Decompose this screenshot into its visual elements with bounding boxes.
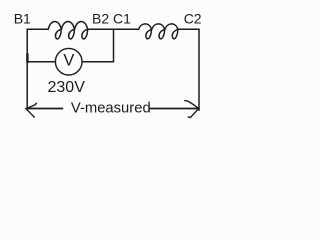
left arrowhead (sketched) [26,103,37,117]
svg-text:V-measured: V-measured [71,100,151,116]
voltmeter left lead wire [27,61,55,63]
svg-text:B1: B1 [14,11,31,27]
inductor L1 (B1-B2 coil) [48,21,88,38]
svg-text:B2: B2 [92,11,109,27]
svg-text:V: V [63,52,74,70]
dimension line right segment [149,108,198,110]
wire right: top lead to C2 corner and right vertical down to dimension line [178,29,199,110]
wire between coils (B2 / C1 segment) [88,28,139,30]
voltmeter V1 (circle with V) [55,48,82,75]
dimension line left segment [27,108,63,110]
wire overlap artifact on left vertical [26,54,28,62]
junction wire from top wire (node B2/C1) down to voltmeter branch [113,29,115,61]
svg-text:C2: C2 [184,11,202,27]
right arrowhead (sketched) [185,101,199,118]
wire left: top lead from B1 corner and left vertical down to dimension line [27,29,48,109]
svg-text:C1: C1 [113,11,131,27]
inductor L2 (C1-C2 coil) [139,24,179,39]
svg-text:230V: 230V [48,79,86,96]
voltmeter right lead wire [82,61,113,63]
